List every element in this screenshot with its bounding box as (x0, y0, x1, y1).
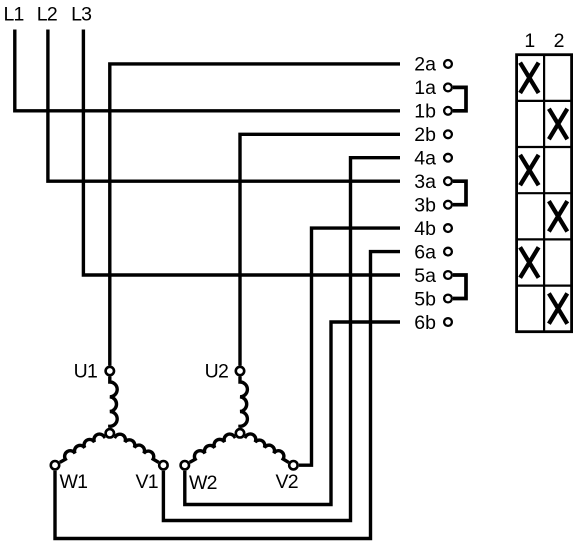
terminal 5b contact circle (444, 295, 452, 303)
terminal U2 circle (236, 367, 244, 375)
winding W2 coil (190, 434, 236, 462)
winding U1 coil (110, 377, 117, 428)
svg-text:L2: L2 (37, 4, 57, 26)
svg-text:L3: L3 (71, 4, 91, 26)
svg-text:4a: 4a (414, 148, 436, 170)
jumper 1a-1b (453, 87, 466, 110)
terminal 6b contact circle (444, 318, 452, 326)
wire 4a to V1 (163, 158, 400, 521)
svg-text:5b: 5b (414, 288, 436, 310)
wire 2a to U1 (110, 64, 400, 366)
svg-text:1: 1 (524, 30, 535, 52)
node L1 (15, 30, 400, 111)
jumper 3a-3b (453, 181, 466, 205)
winding V2 coil (245, 434, 289, 462)
X mark position 1 row 3 (520, 155, 539, 185)
terminal W2 circle (181, 461, 189, 469)
terminal 4b contact circle (444, 224, 452, 232)
star point motor 2 (236, 429, 244, 437)
svg-text:2: 2 (554, 30, 565, 52)
svg-text:2b: 2b (414, 124, 436, 146)
svg-text:W1: W1 (60, 471, 88, 493)
jumper 5a-5b (453, 275, 466, 299)
terminal U1 circle (106, 367, 114, 375)
svg-text:3b: 3b (414, 195, 436, 217)
svg-text:1b: 1b (414, 101, 436, 123)
svg-text:1a: 1a (414, 77, 436, 99)
wire 6a to W1 (55, 252, 400, 539)
svg-text:L1: L1 (4, 4, 24, 26)
winding W1 coil (60, 434, 105, 462)
X mark position 1 row 1 (520, 63, 539, 93)
svg-text:V1: V1 (136, 471, 158, 493)
terminal 2a contact circle (444, 60, 452, 68)
svg-text:U1: U1 (74, 361, 97, 383)
svg-text:3a: 3a (414, 171, 436, 193)
X mark position 2 row 6 (549, 293, 567, 323)
star point motor 1 (106, 429, 114, 437)
svg-text:W2: W2 (189, 472, 217, 494)
terminal 6a contact circle (444, 248, 452, 256)
wire 4b to V2 (299, 228, 400, 465)
winding U2 coil (240, 377, 247, 428)
terminal 3b contact circle (444, 201, 452, 209)
terminal V2 circle (289, 461, 297, 469)
svg-text:4b: 4b (414, 218, 436, 240)
node L3 (83, 30, 400, 276)
X mark position 2 row 2 (549, 109, 567, 139)
terminal 1a contact circle (444, 84, 452, 92)
svg-text:V2: V2 (276, 471, 298, 493)
table switch positions (517, 55, 572, 332)
terminal 1b contact circle (444, 107, 452, 115)
terminal V1 circle (159, 461, 167, 469)
terminal 5a contact circle (444, 271, 452, 279)
svg-text:U2: U2 (205, 361, 228, 383)
terminal 4a contact circle (444, 154, 452, 162)
svg-text:6b: 6b (414, 312, 436, 334)
svg-text:2a: 2a (414, 54, 436, 76)
X mark position 2 row 4 (549, 201, 567, 231)
X mark position 1 row 5 (520, 247, 539, 277)
terminal 3a contact circle (444, 177, 452, 185)
wire 2b to U2 (240, 134, 400, 365)
terminal 2b contact circle (444, 130, 452, 138)
svg-text:5a: 5a (414, 265, 436, 287)
terminal W1 circle (51, 461, 59, 469)
wire 6b to W2 (185, 322, 400, 505)
svg-text:6a: 6a (414, 241, 436, 263)
node L2 (48, 30, 400, 182)
winding V1 coil (115, 434, 159, 462)
